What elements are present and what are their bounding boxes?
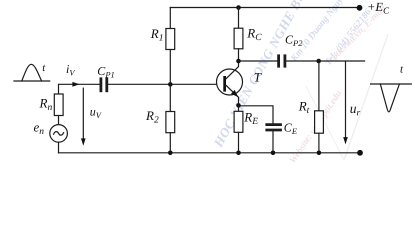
svg-text:T: T [254, 69, 262, 84]
resistor R1 [150, 26, 175, 50]
resistor R_n [39, 94, 64, 116]
wire R2 to bottom rail [169, 133, 171, 153]
wire collector to C_P2 [239, 60, 278, 62]
wire output stub [319, 60, 365, 62]
input waveform [14, 62, 50, 81]
wire R_n to e_n [58, 116, 60, 125]
wire C_E to bottom rail [272, 131, 274, 152]
wire emitter node to R_E [238, 105, 240, 111]
wire R_t to bottom rail [318, 133, 320, 153]
capacitor C_P2 [279, 32, 304, 66]
node emitter junction [236, 103, 241, 108]
capacitor C_E [267, 120, 298, 136]
wire C_P1 to base [108, 83, 216, 85]
wire C_P2 to output node [286, 60, 318, 62]
wire output node to R_t [318, 61, 320, 111]
top rail [170, 7, 359, 9]
bottom rail [59, 152, 361, 154]
resistor R2 [145, 108, 175, 133]
wire top rail to RC [238, 8, 240, 29]
node R_t ground junction [317, 151, 322, 156]
resistor RC [234, 26, 262, 49]
wire e_n to bottom rail [58, 142, 60, 153]
wire base node to R2 [169, 84, 171, 111]
output waveform [371, 64, 412, 112]
wire R1 to base node [169, 50, 171, 85]
voltage arrow u_r [343, 62, 360, 145]
voltage arrow u_V [81, 88, 103, 146]
node R2 ground junction [168, 151, 173, 156]
wire RC to collector node [238, 49, 240, 61]
node C_E ground junction [271, 151, 276, 156]
transistor T [217, 61, 262, 105]
wire top rail to R1 [169, 8, 171, 29]
capacitor C_P1 [97, 64, 114, 91]
wire R_E to bottom rail [238, 132, 240, 153]
wire emitter node to C_E [239, 106, 274, 123]
node base junction [168, 82, 173, 87]
wire input corner to C_P1 [59, 84, 100, 94]
ground terminal dot [357, 150, 363, 156]
resistor R_t [298, 99, 324, 134]
node collector junction [236, 59, 241, 64]
node RC top junction [236, 5, 241, 10]
current arrow i_V [66, 62, 79, 87]
source e_n [34, 120, 68, 143]
supply terminal +E_C [357, 0, 390, 15]
resistor R_E [234, 109, 258, 132]
node R_E ground junction [236, 151, 241, 156]
node output junction [316, 59, 321, 64]
